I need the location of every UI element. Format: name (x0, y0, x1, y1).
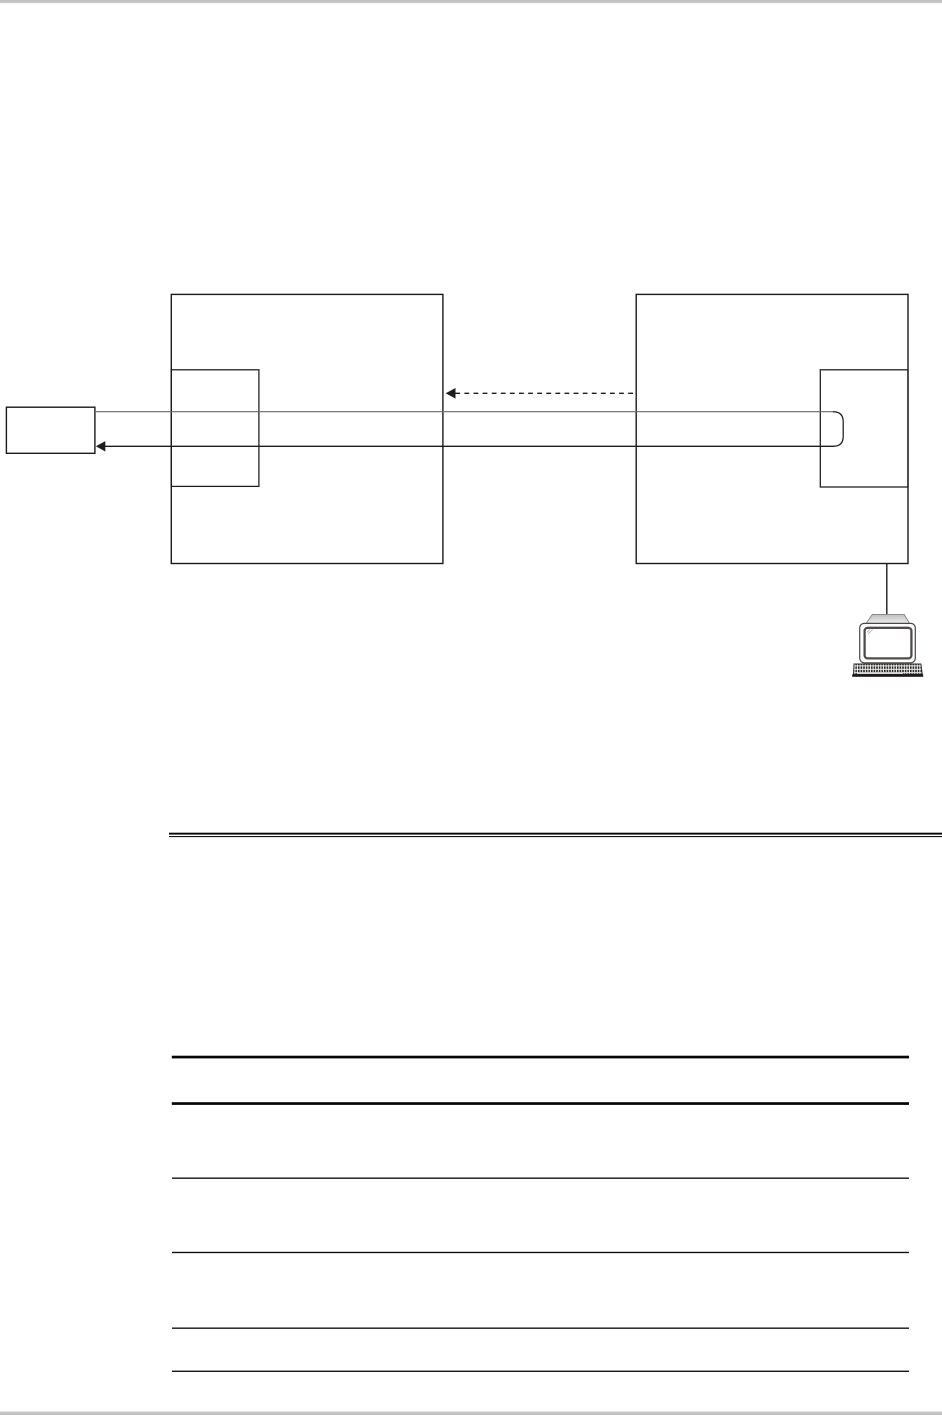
terminal monitor body (860, 623, 916, 662)
loopback curve (833, 412, 843, 447)
dashed feedback wire (455, 392, 636, 394)
double rule thin line (169, 836, 942, 837)
table head rule 2 (172, 1102, 909, 1105)
table row rule 1 (172, 1178, 909, 1179)
right inner box (820, 370, 908, 487)
table head rule 1 (172, 1056, 909, 1059)
table row rule 2 (172, 1252, 909, 1253)
left small box (6, 407, 95, 453)
black return wire (105, 445, 835, 447)
terminal screen shine (867, 629, 873, 634)
page bottom grey separator bar (0, 1411, 942, 1415)
return wire arrowhead (96, 441, 105, 451)
dashed wire arrowhead (446, 388, 456, 399)
grey transmit wire (95, 411, 834, 413)
left inner box (171, 370, 259, 487)
table row rule 4 (172, 1371, 909, 1372)
terminal screen bezel (865, 628, 912, 659)
table row rule 3 (172, 1328, 909, 1329)
wire from right box to terminal (886, 564, 888, 617)
terminal keyboard keys (854, 664, 923, 674)
terminal monitor top trapezoid (866, 614, 910, 623)
terminal keyboard front edge (852, 674, 923, 677)
left large box (171, 294, 443, 563)
right large box (636, 294, 908, 563)
double rule thick line (169, 833, 942, 835)
page top grey separator bar (0, 0, 942, 4)
terminal keyboard spacebar gap (857, 672, 903, 674)
